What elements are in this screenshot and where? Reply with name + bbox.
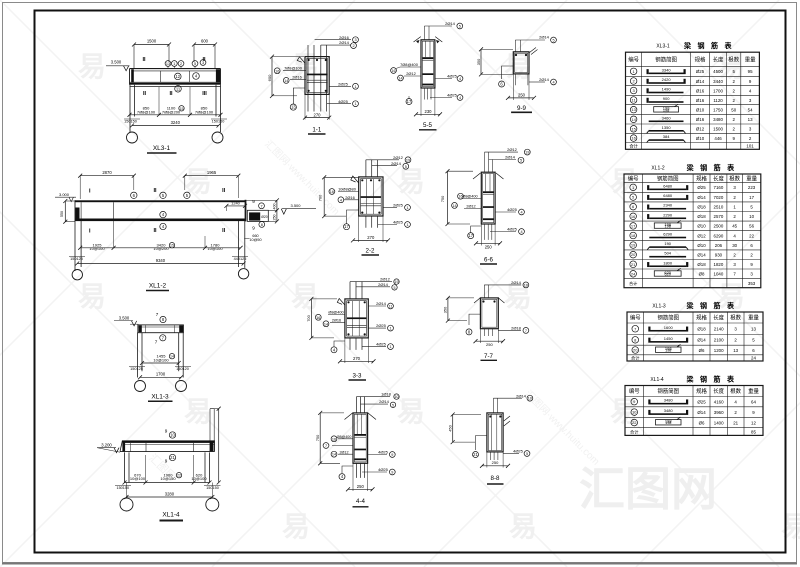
section 5-5 top leader 2Ø14 bar 5 (424, 21, 462, 40)
callout circles above beam XL1-2 (131, 192, 190, 198)
svg-text:19: 19 (395, 280, 399, 284)
svg-text:10Ø8@80: 10Ø8@80 (338, 187, 357, 192)
svg-text:9-9: 9-9 (517, 105, 527, 112)
label 6-6 (480, 257, 497, 265)
svg-text:5: 5 (552, 39, 554, 43)
svg-text:9: 9 (165, 429, 168, 434)
columns below beam XL3-1 (130, 85, 221, 132)
svg-text:17: 17 (407, 99, 412, 104)
svg-text:2Ø12: 2Ø12 (406, 71, 416, 76)
svg-text:14: 14 (324, 322, 328, 326)
section 3-3 left leaders (315, 311, 345, 327)
section 2-2 left height dimension (318, 175, 359, 218)
svg-text:14: 14 (452, 204, 456, 208)
section 7-7 concrete outline (480, 298, 498, 329)
svg-text:550: 550 (60, 211, 64, 217)
svg-text:1800: 1800 (663, 260, 673, 265)
section 5-5 left leader 2Ø12 bar 14 (398, 71, 421, 81)
svg-text:16: 16 (316, 316, 320, 320)
table XL1-3 grid (627, 312, 763, 361)
svg-text:3480: 3480 (664, 398, 674, 403)
table XL1-2 row 19 (630, 241, 754, 250)
callout circle 4 below beam XL1-2 (160, 223, 166, 229)
svg-text:7Ø8@100: 7Ø8@100 (284, 65, 303, 70)
svg-text:13: 13 (748, 117, 753, 122)
table XL1-2 row 1 (630, 183, 756, 190)
section 3-3 right leader 4Ø25 (362, 342, 393, 350)
svg-text:446: 446 (714, 136, 722, 141)
section 7-7 width dimension 250 (474, 329, 506, 347)
svg-text:2: 2 (180, 62, 182, 66)
beam XL1-4 body (120, 440, 215, 451)
svg-text:1700: 1700 (156, 372, 166, 377)
svg-text:合计: 合计 (631, 355, 639, 362)
svg-text:筋: 筋 (710, 41, 718, 50)
svg-text:22: 22 (632, 420, 637, 425)
svg-text:II: II (222, 228, 226, 234)
svg-text:2Ø25: 2Ø25 (376, 323, 387, 328)
svg-text:5: 5 (394, 286, 396, 290)
XL1-3 overall dimension 1700 (138, 372, 183, 380)
svg-text:24: 24 (751, 356, 756, 361)
svg-text:Ø20: Ø20 (261, 215, 268, 219)
svg-text:350: 350 (476, 58, 481, 65)
section 1-1 left height dimension 600 (267, 55, 304, 98)
svg-text:钢: 钢 (700, 375, 707, 384)
table XL1-2 row 17 (630, 220, 755, 229)
columns below beam XL1-3 (138, 333, 184, 378)
callouts 9 21 below beam XL1-4 (165, 454, 176, 463)
section 2-2 inner bands (361, 179, 382, 215)
table XL1-2 row 6 (630, 203, 754, 210)
svg-text:1600: 1600 (664, 325, 674, 330)
svg-text:XL1-3: XL1-3 (151, 393, 169, 400)
svg-text:2420: 2420 (662, 77, 672, 82)
section 3-3 vertical rebars above (350, 282, 362, 299)
svg-text:1500: 1500 (147, 39, 157, 44)
svg-text:1: 1 (406, 223, 408, 227)
svg-text:85: 85 (751, 429, 756, 434)
section 6-6 right leader 4Ø25 lower (490, 227, 524, 235)
svg-text:10: 10 (632, 410, 637, 415)
table XL1-3 header row (630, 314, 760, 322)
XL1-2 right column and axis bubble (238, 221, 248, 279)
svg-text:10: 10 (395, 395, 399, 399)
svg-text:钢: 钢 (700, 163, 707, 172)
svg-text:450: 450 (448, 424, 453, 431)
section 3-3 bottom verticals and circle (331, 338, 362, 353)
svg-text:钢筋简图: 钢筋简图 (655, 56, 677, 64)
svg-text:17: 17 (749, 195, 754, 200)
svg-text:7: 7 (525, 329, 527, 333)
section 2-2 left leader 2Ø16 bar 4 (338, 195, 359, 203)
section 6-6 right leader 4Ø25 upper (495, 207, 524, 215)
section 4-4 inner bands (354, 414, 366, 460)
svg-text:7-7: 7-7 (484, 353, 494, 360)
svg-text:101: 101 (746, 144, 754, 149)
svg-text:长度: 长度 (713, 314, 724, 322)
svg-text:8: 8 (261, 223, 263, 227)
svg-text:规格: 规格 (696, 314, 707, 322)
svg-text:6480: 6480 (663, 183, 673, 188)
svg-text:2340: 2340 (663, 203, 673, 208)
svg-text:梁: 梁 (686, 163, 695, 172)
svg-text:150125: 150125 (130, 367, 143, 371)
svg-text:1Ø18: 1Ø18 (381, 392, 392, 397)
svg-text:14: 14 (170, 355, 174, 359)
svg-text:重量: 重量 (745, 56, 756, 64)
section 1-1 top leader lines to bars 3 and 2 (315, 35, 359, 49)
svg-text:16: 16 (631, 214, 636, 219)
svg-text:9340: 9340 (156, 258, 166, 263)
svg-text:筋: 筋 (713, 301, 721, 310)
beam elevation XL3-1 top dimension line 1500/600 (132, 39, 217, 69)
section 7-7 top leader 2Ø14 bar 10 (484, 280, 529, 298)
svg-text:7: 7 (260, 204, 262, 208)
section 3-3 right leader 2Ø14 bar 11 (368, 301, 393, 309)
svg-text:1: 1 (173, 62, 175, 66)
svg-text:10@100: 10@100 (89, 246, 105, 251)
section 2-2 bottom verticals and circle 17 (344, 210, 378, 230)
svg-text:筋: 筋 (713, 163, 721, 172)
svg-text:筋: 筋 (713, 375, 721, 384)
svg-text:Ø14: Ø14 (697, 338, 706, 343)
svg-text:6480: 6480 (663, 193, 673, 198)
table XL1-2 title (651, 163, 735, 172)
svg-text:表: 表 (724, 41, 733, 50)
svg-text:3460: 3460 (662, 115, 672, 120)
svg-text:7Ø8@400: 7Ø8@400 (400, 62, 419, 67)
svg-text:5: 5 (459, 25, 461, 29)
svg-text:II: II (142, 57, 146, 63)
section 6-6 inner bands (483, 174, 494, 221)
svg-text:易: 易 (397, 396, 425, 427)
label 5-5 (419, 122, 437, 130)
svg-text:1: 1 (406, 206, 408, 210)
callout circle 4 inside beam XL3-1 (193, 73, 200, 80)
svg-text:9: 9 (391, 453, 393, 457)
svg-text:4-4: 4-4 (356, 498, 366, 505)
svg-text:表: 表 (726, 163, 735, 172)
svg-text:Ø14: Ø14 (696, 79, 705, 84)
svg-text:10@200: 10@200 (153, 246, 169, 251)
svg-text:350: 350 (443, 306, 448, 313)
svg-text:2Ø12: 2Ø12 (507, 147, 518, 152)
svg-text:7Ø8@100: 7Ø8@100 (137, 109, 156, 114)
section 7-7 left leader circle 8 (466, 314, 480, 335)
svg-text:易: 易 (78, 281, 106, 312)
section 9-9 width dimension 250 (506, 74, 536, 100)
svg-text:根数: 根数 (728, 56, 739, 64)
svg-text:Ø18: Ø18 (697, 205, 706, 210)
section 4-4 left leaders (323, 435, 353, 457)
section 3-3 concrete outline (345, 299, 368, 338)
svg-text:230: 230 (425, 109, 433, 114)
svg-text:10@150: 10@150 (160, 476, 176, 481)
rebar callout circles above beam XL3-1 (165, 60, 206, 69)
support width texts 150/150 XL3-1 (124, 119, 227, 123)
svg-text:19: 19 (631, 243, 636, 248)
svg-text:II: II (143, 91, 147, 97)
zone marks below beam XL3-1 (143, 91, 207, 97)
svg-text:2: 2 (352, 44, 354, 48)
svg-text:梁: 梁 (683, 41, 692, 50)
XL1-4 right vertical dimension (210, 407, 221, 485)
svg-text:合计: 合计 (629, 143, 637, 150)
table XL3-1 grid (626, 52, 760, 149)
svg-text:198: 198 (665, 421, 671, 425)
section 9-9 right leader 2Ø14 bar 4 (515, 74, 556, 85)
section 6-6 bottom verticals and circle 17 (468, 224, 492, 240)
svg-text:XL3-1: XL3-1 (153, 145, 171, 152)
svg-text:700: 700 (318, 194, 323, 201)
svg-text:21: 21 (631, 262, 636, 267)
svg-text:2570: 2570 (714, 214, 724, 219)
svg-text:3440: 3440 (713, 79, 723, 84)
svg-text:4Ø25: 4Ø25 (376, 342, 387, 347)
svg-text:9: 9 (165, 459, 168, 464)
svg-text:易: 易 (397, 166, 425, 197)
svg-text:Ø25: Ø25 (696, 69, 705, 74)
svg-text:7Ø8@100: 7Ø8@100 (195, 109, 214, 114)
label 8-8 (487, 475, 504, 484)
section 2-2 right leader 4Ø25 (378, 220, 410, 228)
svg-text:2Ø14: 2Ø14 (516, 393, 527, 398)
table XL1-2 row 16 (630, 212, 755, 219)
label 1-1 (308, 127, 326, 135)
table XL3-1 header row (628, 56, 756, 64)
svg-text:1: 1 (389, 327, 391, 331)
section 5-5 left leader stirrup 16 (391, 62, 421, 73)
svg-text:1700: 1700 (713, 88, 723, 93)
svg-text:17: 17 (468, 233, 473, 238)
table XL1-4 grid (625, 386, 763, 436)
svg-text:1450: 1450 (664, 336, 674, 341)
svg-text:16: 16 (275, 69, 279, 73)
section 5-5 right leader 4Ø25 upper (435, 74, 463, 82)
svg-text:2140: 2140 (714, 327, 724, 332)
svg-text:18: 18 (631, 233, 636, 238)
table XL1-2 row 24 (630, 268, 754, 277)
svg-text:54: 54 (748, 107, 753, 112)
svg-text:Ø25: Ø25 (697, 399, 706, 404)
section 4-4 right leader 4Ø25 upper (368, 450, 396, 458)
section 2-2 concrete outline (359, 177, 383, 216)
table XL1-3 total row (631, 355, 756, 362)
svg-text:根数: 根数 (729, 174, 740, 182)
table XL1-4 header row (629, 387, 760, 395)
svg-text:编号: 编号 (628, 174, 639, 182)
svg-text:198: 198 (663, 108, 669, 112)
svg-text:3: 3 (354, 38, 356, 42)
svg-text:表: 表 (726, 301, 735, 310)
svg-text:9: 9 (252, 226, 255, 231)
section 8-8 corner dots and breakline (489, 415, 510, 426)
svg-text:5: 5 (392, 403, 394, 407)
section 6-6 left leaders (452, 193, 482, 208)
svg-text:编号: 编号 (629, 387, 640, 395)
svg-text:Ø8@400: Ø8@400 (328, 311, 343, 315)
section 8-8 width dimension 250 (480, 452, 510, 468)
svg-text:1120: 1120 (713, 98, 723, 103)
section 8-8 inner verticals (492, 414, 497, 450)
table XL1-3 row 20 (632, 345, 755, 354)
svg-text:223: 223 (748, 185, 756, 190)
svg-text:2Ø14: 2Ø14 (539, 77, 550, 82)
svg-text:270: 270 (353, 356, 361, 361)
table XL1-3 row 8 (632, 336, 755, 343)
svg-text:45: 45 (732, 224, 737, 229)
table XL1-2 grid (624, 174, 761, 288)
svg-text:Ø6: Ø6 (699, 348, 705, 353)
svg-text:2Ø14: 2Ø14 (505, 155, 516, 160)
svg-text:2Ø16: 2Ø16 (339, 35, 350, 40)
svg-text:7: 7 (325, 444, 327, 448)
table XL3-1 row 11 (630, 96, 752, 103)
svg-text:30: 30 (732, 243, 737, 248)
svg-text:XL1-3: XL1-3 (652, 304, 666, 310)
table XL1-4 row 22 (631, 417, 757, 426)
svg-text:1040: 1040 (714, 272, 724, 277)
svg-text:根数: 根数 (730, 387, 741, 395)
svg-text:1500: 1500 (713, 127, 723, 132)
section 1-1 concrete outline (305, 57, 329, 95)
svg-text:易: 易 (282, 511, 310, 542)
svg-text:4500: 4500 (713, 69, 723, 74)
beam XL1-2 body (75, 200, 246, 222)
svg-text:钢: 钢 (698, 41, 705, 50)
label 3-3 (349, 373, 367, 381)
svg-text:Ø16: Ø16 (696, 117, 705, 122)
section 5-5 bottom bars and circle 17 (406, 88, 431, 105)
svg-text:Ø8@400: Ø8@400 (337, 435, 352, 439)
section 9-9 breakline top-right (530, 48, 538, 55)
section 9-9 left leader circle 6 (499, 66, 514, 87)
svg-text:4Ø25: 4Ø25 (513, 449, 524, 454)
section 4-4 left height dimension (315, 411, 344, 465)
svg-text:13: 13 (631, 107, 636, 112)
svg-text:64: 64 (751, 399, 756, 404)
level mark 3.500 left of XL1-3 (114, 316, 138, 326)
svg-text:2Ø14: 2Ø14 (339, 40, 350, 45)
svg-text:梁: 梁 (686, 375, 695, 384)
svg-text:7Ø8@200: 7Ø8@200 (162, 109, 181, 114)
svg-text:易: 易 (78, 51, 106, 82)
svg-text:3480: 3480 (664, 408, 674, 413)
callout circle 11 below beam XL3-1 (175, 86, 182, 93)
svg-text:9: 9 (391, 471, 393, 475)
XL1-2 right stub with dense stirrups (247, 210, 268, 221)
svg-text:易: 易 (184, 396, 212, 427)
svg-text:3340: 3340 (662, 67, 672, 72)
section 4-4 right leader 4Ø25 lower (362, 467, 395, 475)
svg-text:Ø6: Ø6 (699, 420, 705, 425)
svg-text:表: 表 (726, 375, 735, 384)
section 2-2 vertical rebars above (366, 160, 378, 177)
section 9-9 concrete outline (513, 52, 529, 74)
svg-text:4: 4 (459, 77, 461, 81)
svg-text:II: II (169, 91, 173, 97)
callout circle 4 inside beam XL1-2 (160, 211, 166, 217)
level mark 3.500 right of XL1-2 (281, 203, 316, 214)
XL1-2 overall dimension 9340 (75, 258, 245, 266)
section 6-6 concrete outline (481, 172, 495, 224)
svg-text:3.200: 3.200 (101, 443, 112, 448)
svg-text:4: 4 (552, 81, 554, 85)
table XL3-1 total row (629, 143, 754, 150)
section 3-3 top leaders (350, 277, 399, 290)
section 3-3 breakline flag top-left (337, 299, 345, 306)
svg-text:353: 353 (748, 281, 756, 286)
svg-text:XL3-1: XL3-1 (656, 44, 670, 50)
section 8-8 top leader 2Ø14 bar 10 (493, 393, 532, 413)
svg-text:16: 16 (631, 136, 636, 141)
svg-text:2Ø14: 2Ø14 (379, 399, 390, 404)
svg-text:4: 4 (340, 198, 342, 202)
svg-text:4Ø25: 4Ø25 (507, 207, 518, 212)
svg-text:1: 1 (389, 345, 391, 349)
svg-text:1350: 1350 (662, 125, 672, 130)
svg-text:汇图网: 汇图网 (579, 463, 717, 515)
svg-text:12: 12 (751, 420, 756, 425)
svg-text:2100: 2100 (714, 338, 724, 343)
svg-text:700: 700 (306, 314, 311, 321)
table XL1-2 row 5 (630, 193, 755, 200)
section 1-1 left leader stirrup 16 (274, 65, 306, 73)
svg-text:2Ø25: 2Ø25 (338, 81, 349, 86)
svg-text:长度: 长度 (713, 56, 724, 64)
XL1-2 stub top dimension 1240 (224, 200, 247, 211)
beam elevation XL1-2 top dimension 2870 (78, 170, 136, 199)
table XL1-2 header row (628, 174, 758, 182)
svg-text:3.500: 3.500 (111, 60, 122, 65)
section 5-5 breakline marks at top corners (414, 37, 443, 44)
svg-text:21: 21 (170, 455, 175, 460)
svg-text:长度: 长度 (713, 174, 724, 182)
section 2-2 top leaders 2Ø12 / 2Ø14 (366, 155, 411, 169)
svg-text:620: 620 (665, 272, 671, 276)
svg-text:Ø14: Ø14 (697, 195, 706, 200)
svg-text:900: 900 (663, 96, 670, 101)
section 6-6 breakline marks at top corners (473, 173, 504, 179)
svg-text:150150: 150150 (116, 486, 129, 490)
svg-text:Ø16: Ø16 (696, 98, 705, 103)
svg-text:16: 16 (458, 195, 462, 199)
svg-text:3960: 3960 (714, 410, 724, 415)
section 5-5 right leader 4Ø25 lower (430, 93, 463, 101)
section 3-3 inner details (347, 301, 367, 336)
svg-text:250: 250 (518, 93, 526, 98)
section 7-7 left height dimension 350 (443, 296, 474, 323)
XL1-4 stirrup spacing dimensions (123, 455, 212, 485)
svg-text:Ø8: Ø8 (699, 272, 705, 277)
svg-text:长度: 长度 (713, 387, 724, 395)
svg-text:10@100: 10@100 (130, 476, 146, 481)
label XL1-2 (146, 283, 169, 291)
svg-text:10@50: 10@50 (249, 238, 261, 242)
callout 7 inside beam XL1-3 (155, 335, 166, 345)
callouts 9 10 above beam XL1-4 (165, 429, 176, 439)
XL1-4 top right leaders (210, 409, 214, 442)
svg-text:600: 600 (267, 74, 272, 81)
svg-text:3240: 3240 (171, 120, 181, 125)
section 8-8 right leader 4Ø25 (503, 449, 530, 457)
table XL3-1 row 16 (630, 134, 752, 143)
section 3-3 width dimension 270 (338, 338, 376, 363)
svg-text:重量: 重量 (748, 314, 759, 322)
svg-text:1200: 1200 (714, 348, 724, 353)
svg-text:7: 7 (155, 340, 158, 345)
